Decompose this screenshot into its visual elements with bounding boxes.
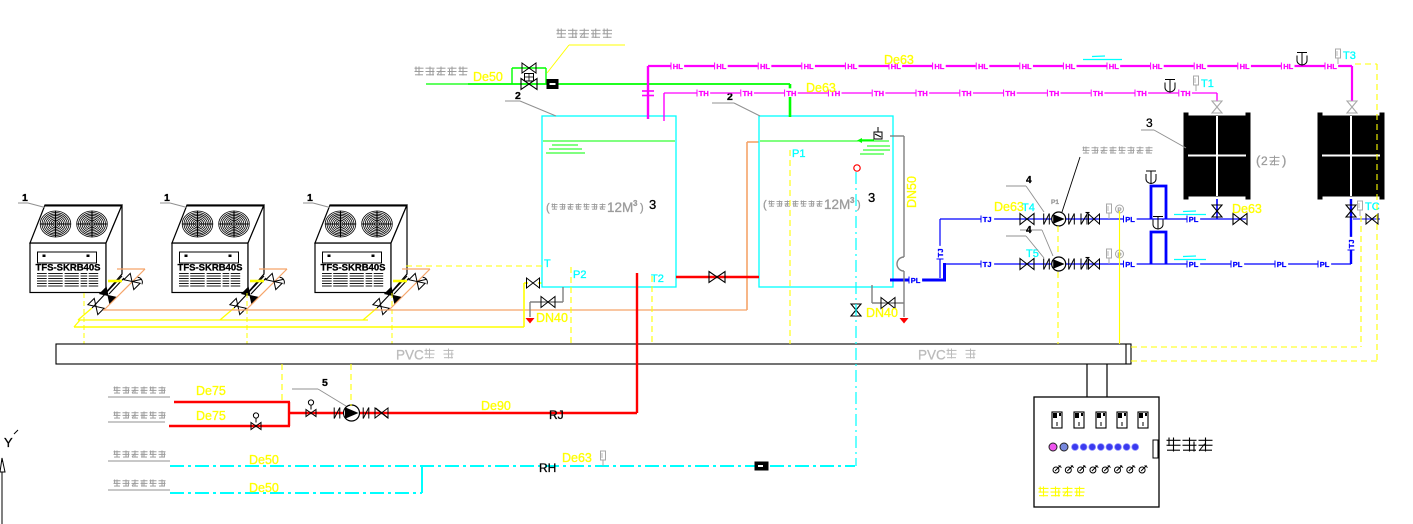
tank 2 item number 3: [868, 190, 875, 205]
angle valve on orange riser 2: [266, 271, 286, 291]
svg-text:PL: PL: [1189, 215, 1199, 224]
yellow header pipe lower run: [74, 320, 524, 327]
svg-text:De63: De63: [994, 200, 1024, 214]
svg-text:2: 2: [515, 90, 521, 102]
svg-text:T4: T4: [1022, 202, 1035, 214]
yellow riser diagonal from heat pump 2: [220, 308, 234, 320]
svg-text:PL: PL: [911, 276, 921, 285]
wire from T3 sensor to trough: [1131, 64, 1377, 361]
valve on heat pump 1 outlet: [88, 298, 104, 314]
TH header drop to collector group 1: [1216, 93, 1218, 101]
TH riser into tank 1: [663, 93, 665, 121]
air vent on TH header: [1165, 80, 1175, 93]
svg-text:PL: PL: [1233, 260, 1243, 269]
svg-text:PVC: PVC: [918, 348, 946, 363]
valve on pump line 2: [1020, 259, 1034, 270]
label 1 leader for heat pump 2: [160, 192, 187, 208]
svg-text:PL: PL: [1189, 260, 1199, 269]
level sensor wire: [855, 172, 857, 466]
thermometer on pump line 2: [1107, 249, 1112, 264]
svg-text:T2: T2: [651, 273, 664, 285]
svg-text:HL: HL: [1327, 62, 1337, 71]
tank 2 water hatches: [860, 146, 890, 154]
thermometer TC at collector 2 outlet: [1358, 201, 1380, 216]
pressure gauge on pump line 1: [1116, 205, 1124, 219]
vent valve on De90: [306, 400, 316, 417]
air vent between bridges: [1153, 217, 1163, 230]
svg-text:DN40: DN40: [536, 311, 568, 325]
pipe bridge on pump line 1: [1151, 186, 1166, 219]
svg-text:DN40: DN40: [866, 306, 898, 320]
svg-text:TJ: TJ: [983, 215, 992, 224]
angle valve on orange riser 1: [124, 271, 144, 291]
valve on tank 1 drain: [541, 297, 555, 308]
svg-text:HL: HL: [1196, 62, 1206, 71]
label DN40 tank 2: [866, 306, 898, 320]
svg-text:TH: TH: [874, 89, 884, 98]
orange riser diagonal from heat pump 2: [246, 269, 287, 310]
flow arrow on pump line 2: [1174, 256, 1206, 260]
svg-text:Y: Y: [4, 435, 13, 450]
yellow riser diagonal from heat pump 1: [78, 308, 92, 320]
svg-text:TH: TH: [1005, 89, 1015, 98]
valve at end of pump line 1: [1233, 214, 1247, 225]
cold water riser into tank 2: [789, 84, 792, 117]
level sensor in tank 2: [854, 165, 860, 171]
flow arrow on HL header: [1083, 56, 1122, 60]
item 4 leader pump 1: [1006, 175, 1044, 212]
orange riser to tank 2 lower port: [747, 142, 759, 310]
valve on tank 1 T port: [527, 278, 540, 288]
svg-text:De50: De50: [473, 70, 503, 84]
drain valve on level pipe: [851, 304, 861, 316]
thermometer T3 on HL header: [1336, 49, 1356, 64]
orange header pipe from heat pumps to tank 2: [103, 309, 747, 311]
svg-text:HL: HL: [978, 62, 988, 71]
svg-text:HL: HL: [1109, 62, 1119, 71]
circulation pump 1: [1052, 212, 1066, 226]
tank 1 drain outlet: [526, 318, 535, 324]
orange riser diagonal from heat pump 3: [389, 269, 430, 310]
control wire from heat pump 3 to PVC trunk: [391, 293, 393, 344]
svg-text:De75: De75: [196, 409, 226, 423]
hot water pump item 5: [344, 405, 360, 421]
svg-text:De63: De63: [1232, 202, 1262, 216]
cabinet switches row: [1053, 466, 1148, 474]
hot water supply pipe De90: [290, 412, 637, 414]
svg-text:HL: HL: [847, 62, 857, 71]
cabinet breakers row: [1052, 412, 1148, 428]
hot water return lower De50: [170, 466, 422, 493]
flow switch on cold water main: [547, 80, 558, 89]
svg-text:PL: PL: [1320, 260, 1330, 269]
svg-text:HL: HL: [804, 62, 814, 71]
thermometer T1 on TH header: [1194, 76, 1214, 91]
solar pump line 1 pipe: [940, 218, 1246, 220]
gray valve above collector group 2: [1347, 101, 1357, 113]
svg-text:TH: TH: [962, 89, 972, 98]
pump suction header from tank 2 port P1: [890, 263, 946, 280]
PVC trough label left: [396, 348, 454, 363]
hot water supply label De90: [481, 399, 511, 413]
svg-text:De90: De90: [481, 399, 511, 413]
svg-text:HL: HL: [760, 62, 770, 71]
svg-text:De63: De63: [806, 81, 836, 95]
svg-text:HL: HL: [934, 62, 944, 71]
yellow pipe stub at heat pump 2: [250, 280, 264, 283]
svg-text:T3: T3: [1343, 50, 1356, 62]
yellow pipe stub at heat pump 1: [108, 280, 122, 283]
control wire from heat pump 1 to PVC trunk: [83, 293, 85, 344]
label DN50 vertical: [905, 176, 919, 208]
HL header drop to collector group 2: [1351, 66, 1353, 101]
valve on tank 2 drain: [881, 298, 895, 309]
flow arrow on pump line 1: [1174, 211, 1206, 215]
wire below trough to pump 5: [350, 364, 352, 406]
hot water branch upper De75: [174, 401, 290, 403]
svg-text:TH: TH: [1093, 89, 1103, 98]
tank 2 drain pipe DN40: [872, 285, 904, 303]
svg-text:1: 1: [307, 192, 313, 204]
supply label line 2: [108, 412, 166, 423]
svg-text:TH: TH: [1049, 89, 1059, 98]
heat pump 2 outlet pipe (black): [234, 276, 266, 308]
valve on heat pump 2 outlet: [230, 298, 246, 314]
svg-text:2: 2: [1261, 154, 1268, 168]
wire from pump group down a: [1057, 226, 1059, 344]
label RH: [539, 461, 556, 475]
wire from TC sensor to trough: [1131, 216, 1361, 347]
PL tags on pump line 2 right: [1231, 259, 1332, 269]
svg-text:TH: TH: [918, 89, 928, 98]
shutoff valve on heat pump 2 outlet: [242, 287, 258, 303]
angle valve on orange riser 3: [409, 271, 429, 291]
svg-text:TFS-SKRB40S: TFS-SKRB40S: [321, 263, 386, 274]
svg-text:5: 5: [322, 377, 328, 389]
svg-text:TH: TH: [786, 89, 796, 98]
orange pipe stub at heat pump 2: [259, 268, 287, 270]
cold water bypass loop: [512, 68, 546, 84]
heat pump unit 1 (TFS-SKRB40S): [30, 205, 122, 293]
hot water return upper De50: [170, 465, 855, 467]
tank connection pipe T2 between tanks: [676, 276, 759, 278]
TH pipe tags: [697, 88, 1192, 98]
branch riser to pump line 1: [939, 219, 941, 278]
svg-text:1: 1: [22, 192, 28, 204]
svg-text:(: (: [546, 202, 550, 214]
svg-text:PL: PL: [1125, 215, 1135, 224]
label RJ: [549, 408, 564, 422]
collector group count label (2zu): [1256, 153, 1286, 168]
tank 2 overflow pipe DN50: [890, 136, 904, 317]
svg-text:3: 3: [649, 197, 656, 212]
yellow pipe stub at heat pump 3: [393, 280, 407, 283]
flex joint after pump 1: [1069, 214, 1075, 225]
svg-text:): ): [1282, 153, 1286, 168]
valve on pump line 1: [1020, 214, 1034, 225]
tank 1 port label P2: [573, 269, 586, 281]
pipe bridge on pump line 2: [1151, 232, 1166, 264]
tank 2 port label P1: [792, 148, 805, 160]
svg-text:RH: RH: [539, 461, 556, 475]
shutoff valve on heat pump 1 outlet: [100, 287, 116, 303]
label DN40 tank 1: [536, 311, 568, 325]
circulation pump 2: [1052, 257, 1066, 271]
check valve after pump 5: [375, 408, 388, 418]
tank 1 port label T: [544, 258, 551, 270]
svg-text:3: 3: [868, 190, 875, 205]
svg-text:1: 1: [164, 192, 170, 204]
label De63 T4 at pump line 1: [994, 200, 1035, 214]
TJ tag on pump line 1: [981, 214, 995, 224]
svg-text:TH: TH: [1137, 89, 1147, 98]
svg-text:4: 4: [1026, 225, 1032, 236]
svg-text:TJ: TJ: [983, 260, 992, 269]
drain valve under collector 1: [1212, 205, 1222, 217]
TJ tag on branch riser: [935, 246, 945, 260]
svg-text:12M: 12M: [607, 200, 633, 215]
orange pipe stub at heat pump 3: [402, 268, 430, 270]
cabinet feed conduit right: [1106, 364, 1108, 397]
pressure gauge on pump line 2: [1116, 250, 1124, 264]
control wire from heat pump 2 to PVC trunk: [246, 293, 248, 344]
TJ tag on collector 2 downpipe: [1346, 237, 1356, 251]
heat pump 1 outlet pipe (black): [92, 276, 124, 308]
tank 1 (solar storage 12m3): [542, 116, 676, 287]
tank 1 drain pipe DN40: [530, 287, 563, 317]
HL riser into tank 1: [642, 66, 654, 119]
svg-text:12M: 12M: [824, 197, 850, 212]
tank 2 drain outlet: [900, 318, 909, 324]
drain stub valve at collector 2: [1353, 214, 1380, 224]
flex joint before pump 5: [334, 408, 340, 419]
inline device on return: [755, 462, 768, 470]
PVC trough label right: [918, 348, 976, 363]
cold water label De50: [473, 70, 503, 84]
svg-text:T: T: [544, 258, 551, 270]
svg-text:De50: De50: [249, 481, 279, 495]
yellow riser diagonal from heat pump 3: [363, 308, 377, 320]
svg-text:TH: TH: [699, 89, 709, 98]
check valve on pump line 1: [1081, 213, 1100, 225]
solar pump line 2 pipe: [946, 263, 1351, 265]
svg-text:De50: De50: [249, 453, 279, 467]
solar pump leader label: [1020, 147, 1153, 257]
PL tag a on pump line 1: [1123, 214, 1137, 224]
solenoid valve on bypass: [522, 63, 536, 81]
svg-text:HL: HL: [673, 62, 683, 71]
svg-text:De63: De63: [884, 53, 914, 67]
drain valve under collector 2: [1346, 205, 1356, 217]
label De63 on HL header: [884, 53, 914, 67]
cabinet feed conduit left: [1086, 364, 1088, 397]
valve on cold water main: [521, 79, 537, 90]
PL tag b on pump line 2: [1187, 259, 1201, 269]
cabinet handle: [1153, 440, 1158, 458]
cold water inlet label: [415, 67, 468, 76]
item 4 leader pump 2: [1006, 225, 1044, 258]
collector 1 outlet downpipe: [1216, 199, 1218, 219]
check valve on pump line 2: [1081, 258, 1100, 270]
leader 2 to tank 1: [505, 90, 556, 116]
PVC wire trough: [56, 344, 1131, 364]
cabinet indicator lights: [1049, 443, 1139, 451]
svg-text:3: 3: [1146, 116, 1153, 130]
supply label line 1: [108, 387, 170, 398]
svg-text:TFS-SKRB40S: TFS-SKRB40S: [178, 263, 243, 274]
flex joint after pump 2: [1069, 259, 1075, 270]
svg-text:HL: HL: [1022, 62, 1032, 71]
electric control cabinet: [1034, 397, 1159, 507]
solar collector group 2: [1318, 113, 1384, 199]
label De63 at pump line 1 end: [1232, 202, 1262, 216]
cold water pipe inlet segment: [426, 83, 468, 85]
cabinet name label: [1167, 438, 1213, 452]
svg-text:(: (: [763, 199, 767, 211]
svg-text:HL: HL: [1065, 62, 1075, 71]
valve between tanks: [709, 272, 725, 283]
sensor on return line: [601, 451, 606, 466]
label De75 upper: [196, 384, 226, 398]
tank 2 (solar storage 12m3): [759, 116, 893, 287]
wire from P2 sensor down: [570, 267, 572, 344]
label De63 on TH header: [806, 81, 836, 95]
flex joint before pump 2: [1044, 259, 1050, 270]
PL tag at tank 2 outlet: [909, 275, 923, 285]
svg-text:De75: De75: [196, 384, 226, 398]
item 5 leader: [292, 377, 346, 406]
label De63 on return: [562, 451, 592, 465]
svg-text:RJ: RJ: [549, 408, 564, 422]
label 1 leader for heat pump 3: [303, 192, 330, 208]
label T5 at pump line 2: [1026, 248, 1039, 260]
svg-text:HL: HL: [716, 62, 726, 71]
svg-text:TJ: TJ: [1347, 239, 1356, 248]
svg-text:TH: TH: [743, 89, 753, 98]
svg-text:De63: De63: [562, 451, 592, 465]
cold water main pipe De50: [468, 83, 790, 85]
collector 2 outlet downpipe: [1350, 199, 1352, 264]
solar return header HL pipe De63: [648, 65, 1352, 67]
svg-text:PVC: PVC: [396, 348, 424, 363]
return label line 1: [108, 451, 170, 462]
solar supply header TH pipe De63: [664, 92, 1217, 94]
svg-text:3: 3: [850, 196, 855, 205]
flex joint before pump 1: [1044, 214, 1050, 225]
wire from T2 sensor down: [651, 276, 653, 344]
svg-text:4: 4: [1026, 175, 1032, 186]
label De50 return upper: [249, 453, 279, 467]
svg-text:TJ: TJ: [936, 248, 945, 257]
PL tag a on pump line 2: [1123, 259, 1137, 269]
label De50 return lower: [249, 481, 279, 495]
collector item label 3: [1141, 116, 1186, 148]
svg-text:PL: PL: [1125, 260, 1135, 269]
svg-text:): ): [857, 199, 861, 211]
svg-text:): ): [640, 202, 644, 214]
leader 2 to tank 2: [712, 91, 760, 116]
svg-text:3: 3: [633, 199, 638, 208]
svg-text:T1: T1: [1201, 78, 1214, 90]
valve on heat pump 3 outlet: [373, 298, 389, 314]
yellow header pipe upper run: [78, 319, 368, 321]
wire to tank 1 T sensor: [406, 265, 542, 267]
leader wire to solenoid valve: [547, 45, 625, 73]
air vent atop bridge: [1146, 171, 1156, 184]
label 1 leader for heat pump 1: [18, 192, 45, 208]
svg-text:HL: HL: [1240, 62, 1250, 71]
tank 1 item number 3: [649, 197, 656, 212]
vent valve on lower De75: [251, 413, 261, 430]
svg-text:PL: PL: [1277, 260, 1287, 269]
tank 2 water level line: [760, 140, 889, 142]
HL pipe tags: [671, 61, 1339, 71]
tank 1 water level line: [543, 140, 675, 142]
svg-text:TH: TH: [1181, 89, 1191, 98]
svg-text:P1: P1: [792, 148, 805, 160]
solar collector group 1: [1184, 113, 1250, 199]
label De75 lower: [196, 409, 226, 423]
flex joint after pump 5: [363, 408, 369, 419]
wire from P1 sensor down: [789, 150, 791, 344]
svg-text:TFS-SKRB40S: TFS-SKRB40S: [36, 263, 101, 274]
heat pump unit 3 (TFS-SKRB40S): [315, 205, 407, 293]
axis marker Y: [0, 430, 18, 524]
heat pump 3 outlet pipe (black): [377, 276, 409, 308]
tank 2 label text: [763, 196, 861, 212]
TJ tag on pump line 2: [981, 259, 995, 269]
tank 1 label text: [546, 199, 644, 215]
air vent on HL header: [1297, 53, 1307, 66]
wire from pump group down b: [1119, 211, 1121, 344]
yellow riser to tank 1 T port: [524, 283, 543, 327]
svg-text:P1: P1: [1051, 199, 1059, 206]
tank 1 port label T2: [651, 273, 664, 285]
orange pipe stub at heat pump 1: [117, 268, 145, 270]
svg-text:P2: P2: [573, 269, 586, 281]
heat pump unit 2 (TFS-SKRB40S): [172, 205, 264, 293]
solenoid valve label: [557, 29, 613, 39]
tank 1 water hatches: [546, 145, 585, 153]
orange riser diagonal from heat pump 1: [104, 269, 145, 310]
wire below trough to De75 area: [281, 364, 283, 400]
shutoff valve on heat pump 3 outlet: [385, 287, 401, 303]
svg-text:HL: HL: [1152, 62, 1162, 71]
return label line 2: [108, 480, 170, 491]
gray valve above collector group 1: [1212, 101, 1222, 113]
thermometer on pump line 1: [1107, 204, 1112, 219]
PL tag b on pump line 1: [1187, 214, 1201, 224]
svg-text:HL: HL: [1283, 62, 1293, 71]
cabinet brand label: [1039, 487, 1085, 497]
svg-text:DN50: DN50: [905, 176, 919, 208]
hot water branch lower De75: [169, 402, 290, 426]
tank 2 float valve: [857, 127, 882, 143]
hot water riser RJ from tank 1: [636, 273, 638, 413]
